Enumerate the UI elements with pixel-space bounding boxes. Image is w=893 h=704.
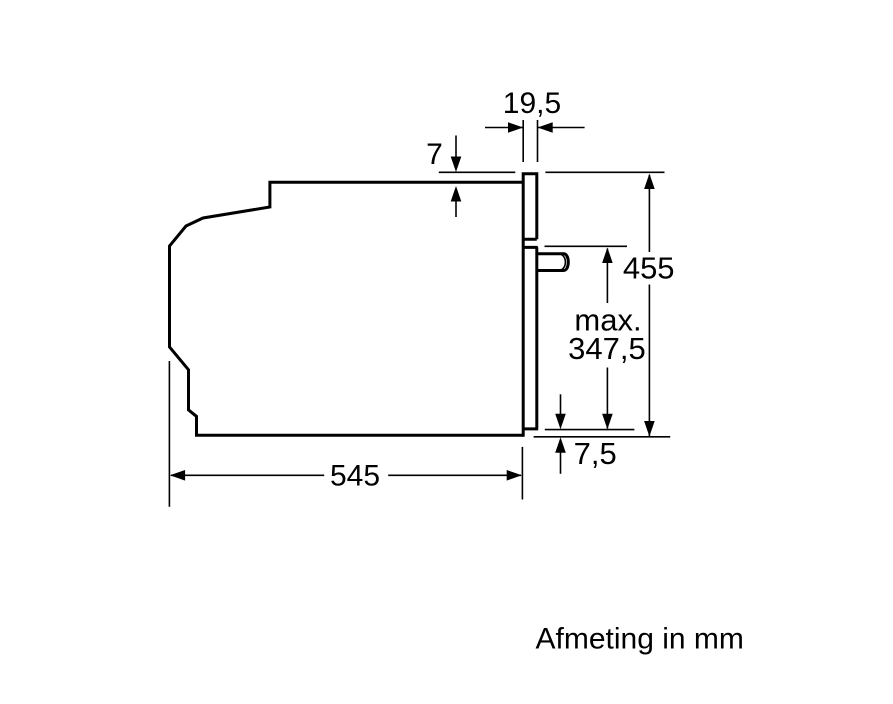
front panel outline (523, 174, 538, 437)
545 left extension line (168, 361, 170, 507)
7,5 up arrowhead (555, 437, 566, 453)
knob inner arc (562, 255, 566, 270)
19,5 dimension line left tail (485, 127, 523, 129)
svg-text:Afmeting in mm: Afmeting in mm (536, 623, 744, 656)
545 left arrowhead (170, 470, 185, 481)
545 right arrowhead (507, 470, 522, 481)
545 dimension line left segment (171, 474, 324, 476)
455 dimension line upper segment (648, 175, 650, 252)
svg-text:545: 545 (330, 460, 380, 493)
347,5 bottom arrowhead (602, 414, 613, 430)
19,5 extension line right (537, 120, 539, 162)
7 down arrow line (455, 136, 457, 159)
7,5 up arrow line (560, 452, 562, 474)
door handle knob (538, 254, 569, 271)
7 up arrow line (455, 200, 457, 217)
347,5 dimension line upper segment (606, 249, 608, 304)
svg-text:7,5: 7,5 (574, 436, 617, 471)
19,5 right arrowhead (538, 122, 553, 133)
oven body outline (170, 182, 524, 435)
545 dimension line right segment (388, 474, 521, 476)
19,5 extension line left (522, 120, 524, 162)
top level extension line left of panel (439, 171, 516, 173)
19,5 left arrowhead (508, 122, 523, 133)
top level extension line right of panel (545, 171, 664, 173)
7,5 down arrowhead (555, 414, 566, 430)
347,5 top arrowhead (602, 248, 613, 264)
7,5 down arrow line (560, 394, 562, 415)
svg-text:347,5: 347,5 (568, 331, 646, 366)
455 dimension line lower segment (648, 285, 650, 437)
347,5 dimension line lower segment (606, 368, 608, 429)
455 bottom arrowhead (644, 421, 655, 437)
7,5 upper extension line (545, 429, 635, 431)
7 up arrowhead (451, 186, 462, 202)
545 right extension line (521, 447, 523, 500)
svg-text:455: 455 (623, 251, 675, 286)
455 top arrowhead (644, 174, 655, 190)
max 347,5 top extension line (545, 245, 628, 247)
bottom level extension line (534, 436, 671, 438)
7 down arrowhead (451, 157, 462, 173)
svg-text:7: 7 (426, 138, 443, 171)
19,5 dimension line right tail (538, 127, 585, 129)
svg-text:19,5: 19,5 (503, 87, 561, 120)
